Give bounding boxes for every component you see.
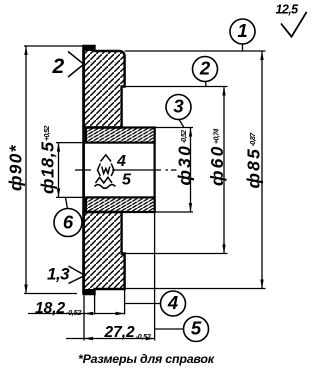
dim ф30 line — [190, 128, 192, 213]
dim ф85 arrow bottom — [260, 280, 263, 289]
dim 18.2 line — [28, 313, 125, 315]
dim ф85 arrow top — [260, 51, 263, 60]
extension line tab right bottom — [94, 292, 96, 315]
wheel section lower block — [84, 212, 125, 294]
dim ф85 extension top — [125, 50, 266, 52]
extension line bushing right face bottom — [154, 212, 156, 341]
dim 18.2 arrow right — [116, 312, 125, 315]
svg-text:4: 4 — [116, 153, 126, 170]
dim 27.2 arrow left — [84, 337, 93, 340]
extension line wheel right face bottom — [124, 289, 126, 315]
dim ф85 extension bottom — [125, 288, 266, 290]
wheel section upper block — [84, 46, 125, 128]
bushing right face edge — [154, 128, 156, 213]
balloon 3 — [166, 95, 191, 128]
chamfer mark 2 — [68, 52, 84, 78]
svg-text:5: 5 — [191, 318, 202, 339]
extension line left face bottom — [83, 296, 85, 341]
dim ф60 extension bottom — [125, 253, 228, 255]
svg-text:3: 3 — [173, 96, 184, 117]
dim ф18.5 arrow top — [57, 143, 60, 152]
wheel top rim tab — [84, 45, 95, 51]
dim ф18.5 extension top — [56, 142, 84, 144]
dim ф60 extension top — [122, 86, 228, 88]
svg-text:12,5: 12,5 — [276, 3, 300, 17]
bushing section lower wall — [86, 197, 155, 212]
svg-text:ф90*: ф90* — [6, 144, 26, 191]
svg-text:2: 2 — [199, 58, 211, 79]
svg-text:1: 1 — [237, 20, 247, 41]
dim ф60 line — [223, 87, 225, 254]
dim ф90 arrow top — [24, 46, 27, 55]
dim ф30 extension top — [155, 127, 193, 129]
dim ф90 arrow bottom — [24, 285, 27, 294]
bore roughness symbol upper — [98, 155, 115, 176]
dim 27.2 arrow right — [146, 337, 155, 340]
wheel left face edge — [82, 46, 85, 294]
wheel bottom rim tab — [84, 289, 95, 295]
dim ф30 arrow bottom — [189, 203, 192, 212]
chamfer mark 1,3 — [68, 266, 85, 284]
svg-text:2: 2 — [52, 55, 65, 78]
dim ф30 arrow top — [189, 128, 192, 137]
balloon 4 — [125, 291, 186, 316]
balloon 2 — [193, 57, 218, 87]
svg-text:*Размеры для справок: *Размеры для справок — [78, 352, 215, 366]
dim ф18.5 arrow bottom — [57, 188, 60, 197]
bushing section upper wall — [86, 128, 155, 143]
dim ф18.5 extension bottom — [56, 196, 84, 198]
dim ф60 arrow top — [222, 87, 225, 96]
svg-text:6: 6 — [63, 212, 74, 233]
svg-text:1,3: 1,3 — [47, 265, 70, 284]
dim 18.2 arrow left — [84, 312, 93, 315]
dim 27.2 line — [66, 338, 155, 340]
dim ф90 extension top — [24, 45, 83, 47]
balloon 5 — [155, 317, 209, 342]
svg-text:5: 5 — [122, 172, 132, 189]
centerline — [75, 169, 177, 171]
roughness mark top right — [281, 12, 307, 37]
dim ф60 arrow bottom — [222, 245, 225, 254]
dim ф90 line — [25, 46, 27, 294]
dim ф18.5 line — [58, 143, 60, 198]
dim ф90 extension bottom — [24, 293, 77, 295]
svg-text:4: 4 — [167, 292, 178, 313]
balloon 6 — [54, 197, 82, 236]
balloon 1 — [230, 19, 255, 51]
dim ф85 line — [261, 51, 263, 289]
bore roughness symbol lower — [95, 177, 116, 188]
dim ф30 extension bottom — [155, 211, 193, 213]
